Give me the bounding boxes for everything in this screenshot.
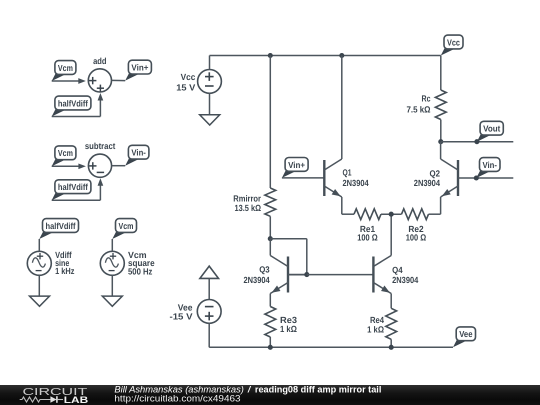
wire top rail down to Rmirror (269, 56, 271, 189)
svg-text:500 Hz: 500 Hz (128, 266, 153, 276)
svg-text:13.5 kΩ: 13.5 kΩ (235, 203, 262, 213)
svg-text:7.5 kΩ: 7.5 kΩ (407, 104, 431, 114)
svg-text:Vee: Vee (459, 329, 472, 339)
wire Re4 to bottom rail (390, 339, 392, 347)
junction Vin- flag attach (474, 175, 479, 180)
wire Q3 base to Q4 base (307, 274, 374, 276)
wire Q3 base to junction (288, 274, 307, 276)
svg-text:1 kHz: 1 kHz (55, 266, 75, 276)
svg-text:add: add (93, 56, 106, 66)
wire Q1 collector to top rail (341, 56, 343, 160)
arrowhead into adder bottom input (98, 93, 104, 101)
wire top rail Vcc net (210, 55, 441, 57)
CircuitLab logo (0, 385, 110, 405)
ground under Vcc source (200, 115, 220, 125)
wire Re2 to Q2 emitter (429, 213, 441, 215)
voltage source Vcc 15 V (198, 70, 222, 94)
resistor Rmirror 13.5 kOhm (265, 188, 276, 216)
wire subtractor halfVdiff input horizontal (52, 199, 101, 201)
junction Re1 / Re2 / Q4 collector (389, 212, 394, 217)
svg-text:2N3904: 2N3904 (392, 275, 418, 285)
net flag Vout (477, 121, 503, 141)
resistor Re4 1 kOhm (386, 308, 397, 339)
junction Vout flag attach (474, 139, 479, 144)
net flag Vin+ (adder output) (125, 60, 151, 80)
svg-text:Vcm: Vcm (58, 63, 73, 73)
svg-text:Q1: Q1 (343, 168, 352, 178)
svg-text:Vin-: Vin- (131, 148, 146, 158)
behavioral subtractor block "subtract" (88, 154, 111, 177)
net flag Vin+ (Q1 base) (282, 158, 308, 178)
junction Rc / Vout / Q2 collector (438, 139, 443, 144)
net flag Vcm (subtractor input) (52, 146, 76, 166)
wire Q1 emitter down (341, 197, 343, 214)
net flag halfVdiff (subtractor input) (52, 180, 91, 200)
ground under Vdiff source (30, 296, 50, 306)
wire Re3 to bottom rail (269, 337, 271, 347)
wire junction down to Q3 collector corner (269, 239, 271, 256)
net flag Vin- (Q2 base) (476, 158, 500, 178)
wire Vcc source to ground (209, 93, 211, 115)
resistor Re2 100 Ohm (402, 209, 429, 220)
behavioral adder block "add" (88, 69, 111, 92)
svg-text:halfVdiff: halfVdiff (58, 98, 88, 108)
ground under Vcm source (102, 296, 122, 306)
svg-text:1 kΩ: 1 kΩ (280, 324, 297, 334)
wire Vcc flag down to Rc (440, 56, 442, 91)
wire Vee source to bottom rail (208, 323, 210, 347)
svg-text:15 V: 15 V (176, 82, 195, 92)
wire adder halfVdiff input vertical (99, 96, 101, 117)
junction bottom rail / Re3 (268, 345, 273, 350)
wire Re1 to Re2 via junction (381, 213, 402, 215)
voltage source Vee -15 V (197, 300, 221, 324)
wire Q4 emitter to Re4 (390, 294, 392, 309)
svg-text:Q4: Q4 (392, 265, 403, 275)
svg-text:subtract: subtract (85, 141, 115, 151)
resistor Rc 7.5 kOhm (435, 90, 446, 120)
svg-text:Vcc: Vcc (447, 37, 460, 47)
net flag Vcm (source output) (112, 219, 136, 239)
svg-text:Rc: Rc (422, 93, 431, 103)
wire adder output to Vin+ flag (112, 79, 126, 81)
svg-text:Vcm: Vcm (58, 148, 73, 158)
net flag Vee (bottom rail) (453, 327, 476, 347)
wire Vin+ flag to Q1 base (282, 177, 324, 179)
svg-text:http://circuitlab.com/cx49463: http://circuitlab.com/cx49463 (114, 393, 240, 403)
wire Vee arrow to Vee source (208, 278, 210, 299)
resistor Re3 1 kOhm (265, 307, 276, 338)
power flag arrow above Vee source (200, 266, 219, 278)
svg-text:Vin+: Vin+ (288, 160, 305, 170)
arrowhead into subtractor left input (78, 163, 86, 169)
wire subtractor Vcm input (52, 165, 83, 167)
svg-text:2N3904: 2N3904 (414, 178, 440, 188)
wire Q2 emitter down to Re2 (440, 197, 442, 214)
wire Q2 base Vin- net (458, 177, 513, 179)
wire subtractor halfVdiff input vertical (99, 181, 101, 200)
wire Vout net (441, 141, 514, 143)
svg-text:100 Ω: 100 Ω (357, 232, 377, 242)
transistor Q3 2N3904 NPN (270, 256, 288, 294)
svg-text:Q3: Q3 (259, 265, 270, 275)
resistor Re1 100 Ohm (354, 209, 381, 220)
net flag Vin- (subtractor output) (125, 145, 149, 165)
svg-text:Vin-: Vin- (483, 160, 498, 170)
junction Rmirror / Q3 collector / base tie (268, 236, 273, 241)
wire Rc to Vout node (440, 120, 442, 142)
svg-text:Vcm: Vcm (119, 221, 134, 231)
net flag Vcc (top rail) (441, 35, 463, 55)
transistor Q2 2N3904 NPN (441, 159, 458, 197)
footer bar (0, 385, 540, 405)
voltage source V1 Vdiff sine 1 kHz (27, 251, 51, 275)
wire Vcc source to top rail (209, 56, 211, 70)
wire Vdiff source to ground (38, 275, 40, 296)
junction bottom rail / Re4 (389, 345, 394, 350)
wire adder Vcm input (52, 80, 83, 82)
svg-text:halfVdiff: halfVdiff (58, 182, 88, 192)
svg-text:Vcc: Vcc (181, 72, 196, 82)
wire Rmirror to mirror junction (269, 216, 271, 238)
junction Q3 base / Q4 base / tie (304, 272, 309, 277)
svg-text:Re4: Re4 (370, 315, 384, 325)
wire bottom rail Vee net (209, 346, 453, 348)
wire Vout node to Q2 collector corner (440, 142, 442, 159)
wire collector-base tie vertical (306, 239, 308, 275)
wire subtractor output to Vin- flag (112, 165, 126, 167)
svg-text:100 Ω: 100 Ω (406, 232, 426, 242)
wire Q4 collector to Re1/Re2 junction (390, 214, 392, 255)
wire collector-base tie horizontal (270, 238, 307, 240)
transistor Q1 2N3904 NPN (324, 159, 342, 197)
net flag halfVdiff (adder input) (52, 96, 91, 116)
wire adder halfVdiff input horizontal (52, 116, 101, 118)
svg-text:Q2: Q2 (430, 168, 441, 178)
svg-text:2N3904: 2N3904 (343, 178, 369, 188)
wire Q3 emitter to Re3 (269, 294, 271, 307)
svg-text:halfVdiff: halfVdiff (46, 221, 76, 231)
junction top rail / Rmirror branch (268, 53, 273, 58)
wire Vcm flag to Vcm source (111, 239, 113, 251)
wire Vcm source to ground (111, 275, 113, 296)
net flag halfVdiff (source output) (39, 219, 78, 239)
wire Q1 emitter to Re1 (342, 213, 354, 215)
credit text (0, 385, 540, 405)
svg-text:2N3904: 2N3904 (244, 275, 270, 285)
svg-text:Vout: Vout (483, 124, 500, 134)
svg-text:Vin+: Vin+ (131, 63, 148, 73)
wire halfVdiff flag to Vdiff source (38, 239, 40, 251)
svg-text:1 kΩ: 1 kΩ (367, 325, 384, 335)
svg-text:-15 V: -15 V (170, 312, 193, 322)
arrowhead into subtractor bottom input (98, 178, 104, 186)
junction top rail / Q1 collector branch (339, 53, 344, 58)
net flag Vcm (adder input) (52, 61, 76, 81)
transistor Q4 2N3904 NPN (373, 256, 391, 294)
voltage source V2 Vcm square 500 Hz (100, 251, 124, 275)
svg-text:Rmirror: Rmirror (233, 193, 261, 203)
arrowhead into adder left input (78, 78, 86, 84)
